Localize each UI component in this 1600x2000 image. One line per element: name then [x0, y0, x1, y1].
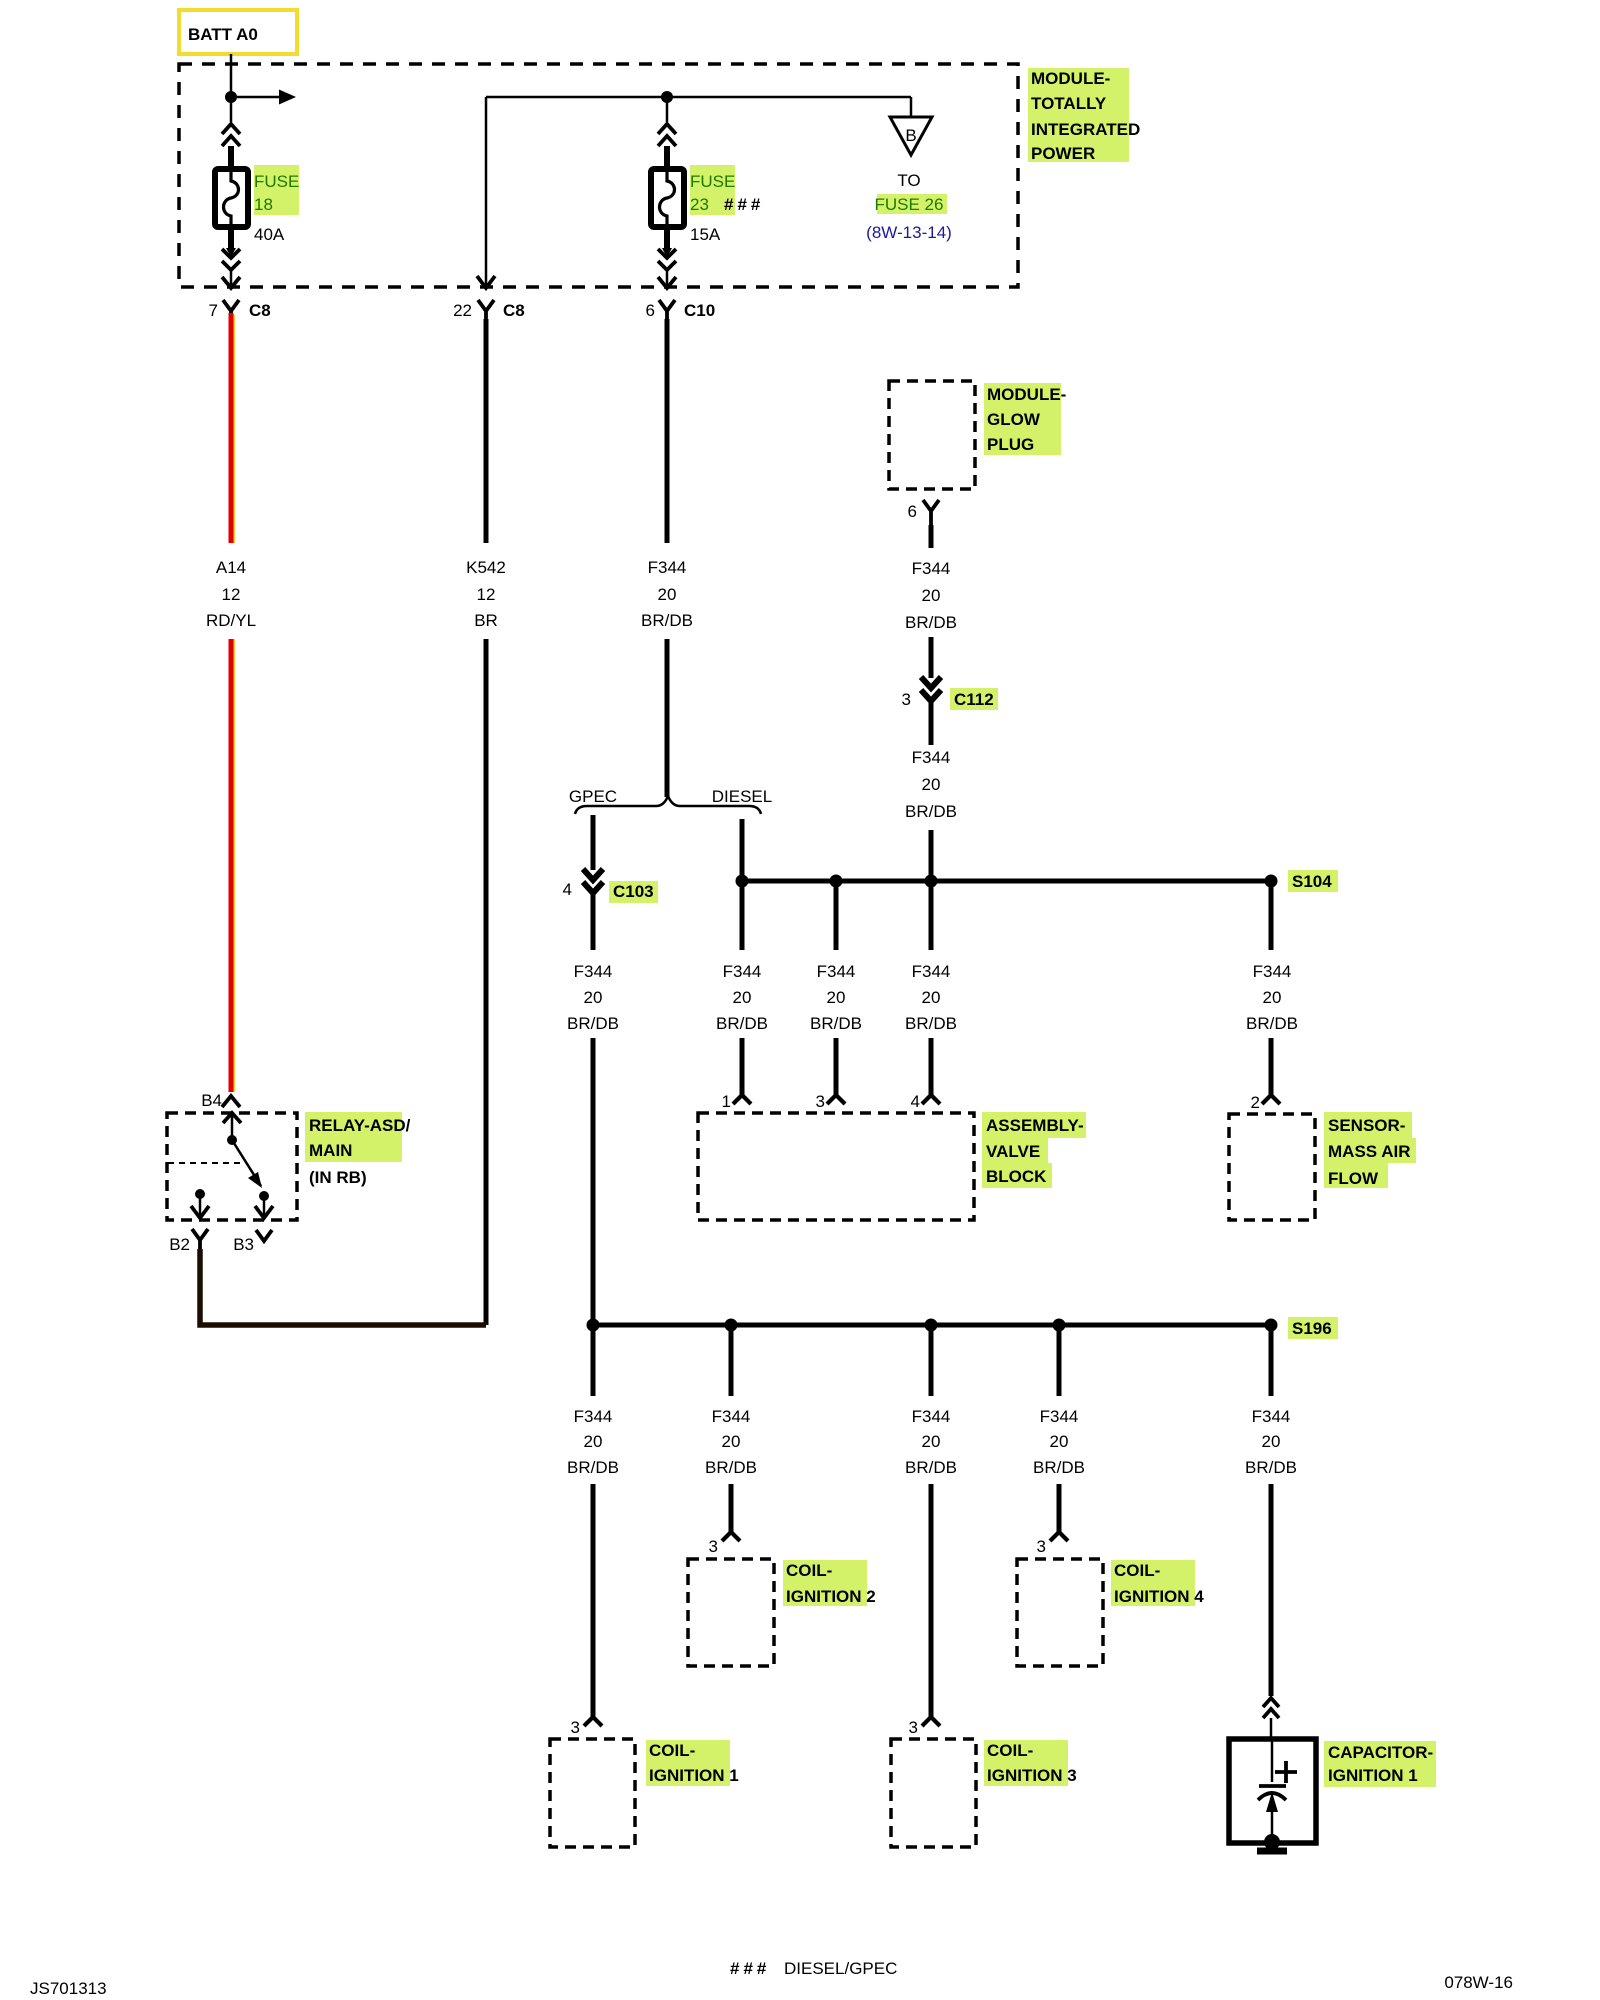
- svg-text:20: 20: [922, 1432, 941, 1451]
- svg-text:(IN RB): (IN RB): [309, 1168, 367, 1187]
- svg-text:20: 20: [584, 1432, 603, 1451]
- svg-text:12: 12: [477, 585, 496, 604]
- svg-text:MAIN: MAIN: [309, 1141, 352, 1160]
- svg-text:20: 20: [733, 988, 752, 1007]
- svg-text:4: 4: [911, 1092, 920, 1111]
- svg-text:C8: C8: [249, 301, 271, 320]
- svg-text:FUSE: FUSE: [254, 172, 299, 191]
- svg-text:POWER: POWER: [1031, 144, 1095, 163]
- svg-text:BATT A0: BATT A0: [188, 25, 258, 44]
- svg-text:MASS AIR: MASS AIR: [1328, 1142, 1411, 1161]
- svg-text:6: 6: [908, 502, 917, 521]
- svg-text:BR/DB: BR/DB: [567, 1458, 619, 1477]
- svg-text:MODULE-: MODULE-: [1031, 69, 1110, 88]
- svg-text:B3: B3: [233, 1235, 254, 1254]
- svg-text:BR/DB: BR/DB: [905, 613, 957, 632]
- svg-text:F344: F344: [574, 962, 613, 981]
- svg-text:BR/DB: BR/DB: [641, 611, 693, 630]
- svg-text:F344: F344: [712, 1407, 751, 1426]
- svg-text:12: 12: [222, 585, 241, 604]
- svg-text:BR/DB: BR/DB: [810, 1014, 862, 1033]
- svg-text:20: 20: [584, 988, 603, 1007]
- svg-text:2: 2: [1251, 1093, 1260, 1112]
- svg-text:GPEC: GPEC: [569, 787, 617, 806]
- svg-text:3: 3: [816, 1092, 825, 1111]
- svg-text:PLUG: PLUG: [987, 435, 1034, 454]
- svg-text:F344: F344: [723, 962, 762, 981]
- svg-text:IGNITION 1: IGNITION 1: [649, 1766, 739, 1785]
- svg-text:40A: 40A: [254, 225, 285, 244]
- svg-text:RELAY-ASD/: RELAY-ASD/: [309, 1116, 411, 1135]
- svg-text:A14: A14: [216, 558, 246, 577]
- svg-text:IGNITION 4: IGNITION 4: [1114, 1587, 1204, 1606]
- svg-text:F344: F344: [648, 558, 687, 577]
- svg-text:GLOW: GLOW: [987, 410, 1041, 429]
- svg-text:FLOW: FLOW: [1328, 1169, 1379, 1188]
- svg-text:6: 6: [646, 301, 655, 320]
- svg-text:COIL-: COIL-: [649, 1741, 695, 1760]
- svg-text:F344: F344: [1253, 962, 1292, 981]
- svg-text:VALVE: VALVE: [986, 1142, 1040, 1161]
- svg-text:20: 20: [922, 586, 941, 605]
- svg-text:SENSOR-: SENSOR-: [1328, 1116, 1405, 1135]
- svg-text:20: 20: [922, 988, 941, 1007]
- svg-text:3: 3: [902, 690, 911, 709]
- svg-text:###: ###: [730, 1959, 770, 1978]
- svg-text:RD/YL: RD/YL: [206, 611, 256, 630]
- svg-text:BR/DB: BR/DB: [705, 1458, 757, 1477]
- svg-text:BR/DB: BR/DB: [1245, 1458, 1297, 1477]
- svg-text:20: 20: [722, 1432, 741, 1451]
- svg-text:TO: TO: [897, 171, 920, 190]
- svg-text:FUSE: FUSE: [690, 172, 735, 191]
- svg-text:F344: F344: [817, 962, 856, 981]
- svg-text:F344: F344: [912, 559, 951, 578]
- svg-text:COIL-: COIL-: [1114, 1561, 1160, 1580]
- svg-text:COIL-: COIL-: [786, 1561, 832, 1580]
- svg-text:DIESEL: DIESEL: [712, 787, 772, 806]
- svg-text:C103: C103: [613, 882, 654, 901]
- svg-text:B4: B4: [201, 1091, 222, 1110]
- svg-text:FUSE 26: FUSE 26: [875, 195, 944, 214]
- svg-text:15A: 15A: [690, 225, 721, 244]
- svg-text:S104: S104: [1292, 872, 1332, 891]
- svg-text:B: B: [905, 126, 916, 145]
- svg-text:3: 3: [709, 1537, 718, 1556]
- svg-text:INTEGRATED: INTEGRATED: [1031, 120, 1140, 139]
- svg-text:###: ###: [724, 195, 764, 214]
- svg-text:F344: F344: [574, 1407, 613, 1426]
- svg-text:20: 20: [1050, 1432, 1069, 1451]
- svg-text:(8W-13-14): (8W-13-14): [866, 223, 952, 242]
- svg-text:BLOCK: BLOCK: [986, 1167, 1047, 1186]
- svg-text:IGNITION 3: IGNITION 3: [987, 1766, 1077, 1785]
- svg-text:MODULE-: MODULE-: [987, 385, 1066, 404]
- svg-text:IGNITION 1: IGNITION 1: [1328, 1766, 1418, 1785]
- svg-text:20: 20: [1263, 988, 1282, 1007]
- svg-text:20: 20: [922, 775, 941, 794]
- svg-text:7: 7: [209, 301, 218, 320]
- svg-text:C8: C8: [503, 301, 525, 320]
- svg-text:TOTALLY: TOTALLY: [1031, 94, 1107, 113]
- svg-text:22: 22: [453, 301, 472, 320]
- svg-text:C112: C112: [954, 690, 994, 709]
- svg-text:3: 3: [1037, 1537, 1046, 1556]
- svg-text:BR/DB: BR/DB: [905, 1014, 957, 1033]
- svg-text:23: 23: [690, 195, 709, 214]
- svg-text:18: 18: [254, 195, 273, 214]
- svg-text:BR/DB: BR/DB: [1246, 1014, 1298, 1033]
- svg-text:B2: B2: [169, 1235, 190, 1254]
- svg-text:K542: K542: [466, 558, 506, 577]
- svg-text:BR: BR: [474, 611, 498, 630]
- svg-text:JS701313: JS701313: [30, 1979, 107, 1998]
- svg-text:F344: F344: [912, 1407, 951, 1426]
- svg-text:IGNITION 2: IGNITION 2: [786, 1587, 876, 1606]
- svg-text:F344: F344: [1252, 1407, 1291, 1426]
- svg-text:4: 4: [563, 880, 572, 899]
- svg-text:C10: C10: [684, 301, 715, 320]
- svg-text:F344: F344: [912, 748, 951, 767]
- svg-text:ASSEMBLY-: ASSEMBLY-: [986, 1116, 1084, 1135]
- svg-text:COIL-: COIL-: [987, 1741, 1033, 1760]
- svg-text:CAPACITOR-: CAPACITOR-: [1328, 1743, 1433, 1762]
- svg-text:1: 1: [722, 1092, 731, 1111]
- svg-text:3: 3: [909, 1718, 918, 1737]
- svg-text:20: 20: [1262, 1432, 1281, 1451]
- svg-text:F344: F344: [912, 962, 951, 981]
- svg-text:078W-16: 078W-16: [1444, 1973, 1513, 1992]
- svg-text:20: 20: [658, 585, 677, 604]
- svg-text:BR/DB: BR/DB: [716, 1014, 768, 1033]
- svg-text:3: 3: [571, 1718, 580, 1737]
- svg-text:20: 20: [827, 988, 846, 1007]
- svg-text:BR/DB: BR/DB: [567, 1014, 619, 1033]
- svg-text:BR/DB: BR/DB: [905, 1458, 957, 1477]
- svg-text:BR/DB: BR/DB: [1033, 1458, 1085, 1477]
- svg-text:S196: S196: [1292, 1319, 1332, 1338]
- svg-text:DIESEL/GPEC: DIESEL/GPEC: [784, 1959, 897, 1978]
- svg-text:BR/DB: BR/DB: [905, 802, 957, 821]
- svg-text:F344: F344: [1040, 1407, 1079, 1426]
